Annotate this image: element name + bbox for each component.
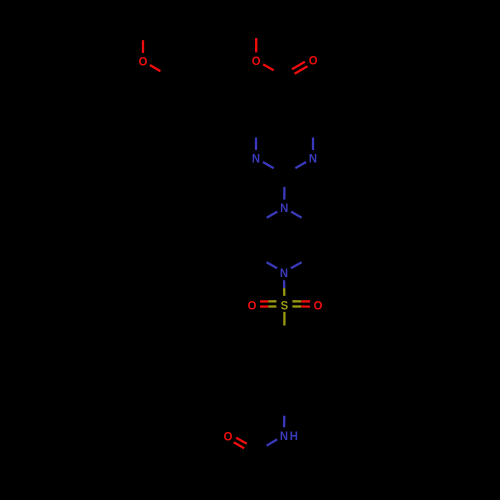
double bond S=O right xyxy=(292,305,301,307)
piperazine ring bond right xyxy=(311,224,313,240)
bond N-C piperazine top-right xyxy=(291,212,302,218)
double bond C=O amide xyxy=(247,444,257,450)
bond S-C phenyl xyxy=(283,312,285,326)
phenyl ring bond C3-C4 xyxy=(256,388,270,396)
bond N3-C2 pyrimidine xyxy=(295,162,306,168)
bond N-S sulfonamide xyxy=(283,280,285,288)
bond C4-N1 pyrimidine xyxy=(255,125,257,138)
bond C-N anilide xyxy=(283,404,285,416)
aryl ring bond C1-C2 xyxy=(227,94,229,111)
bond aryl-pyrimidine xyxy=(228,110,242,117)
bond N1-C2 pyrimidine xyxy=(263,162,274,168)
svg-text:O: O xyxy=(139,54,148,69)
phenyl ring bond C1-C6 xyxy=(284,339,298,347)
svg-text:O: O xyxy=(314,298,323,313)
bond N-C piperazine top-left xyxy=(267,212,278,218)
bond CH3-O methoxy xyxy=(142,28,144,41)
phenyl ring bond C6-C5 xyxy=(311,356,313,372)
aryl ring bond C5-C6 xyxy=(171,110,185,118)
svg-text:N: N xyxy=(309,151,317,166)
svg-text:H: H xyxy=(290,428,298,443)
svg-text:N: N xyxy=(280,201,288,216)
aryl ring bond C4-C5 xyxy=(170,77,172,93)
bond N-C amide xyxy=(267,439,278,445)
bond C2-N piperazine link xyxy=(283,174,285,187)
aryl ring bond C6-C1 xyxy=(200,118,214,126)
aryl ring bond C3-C4 xyxy=(185,60,199,69)
bond C-CH3 amide xyxy=(255,452,257,469)
svg-text:S: S xyxy=(281,298,289,313)
pyrimidine ring bond C5-C6 xyxy=(285,109,299,117)
double bond S=O left xyxy=(268,300,276,302)
bond O-C aryl methoxy xyxy=(150,65,161,71)
svg-text:N: N xyxy=(280,428,288,443)
phenyl ring bond C5-C4 xyxy=(298,388,312,396)
bond O-C ester xyxy=(263,64,274,70)
bond C6-N3 pyrimidine xyxy=(312,125,314,138)
svg-text:O: O xyxy=(248,298,257,313)
pyrimidine ring bond C4-C5 xyxy=(256,117,270,125)
bond C5-C carboxylate xyxy=(283,93,285,109)
double bond C=O ester xyxy=(286,74,295,79)
bond CH3-O ester xyxy=(255,27,257,38)
aryl ring bond C2-C3 xyxy=(214,69,228,77)
svg-text:O: O xyxy=(224,429,233,444)
svg-text:N: N xyxy=(252,151,260,166)
phenyl ring bond C1-C2 xyxy=(270,339,284,347)
piperazine ring bond left xyxy=(255,224,257,240)
phenyl ring bond C2-C3 xyxy=(255,356,257,372)
bond C-N piperazine bottom-right xyxy=(302,256,313,262)
svg-text:O: O xyxy=(309,53,318,68)
svg-text:N: N xyxy=(280,265,288,280)
bond C-N piperazine bottom-left xyxy=(256,256,266,262)
svg-text:O: O xyxy=(252,53,261,68)
